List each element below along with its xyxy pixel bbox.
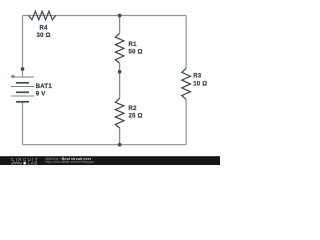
short plate 1 [16,82,29,84]
wire: middle branch bottom (R2 to bottom rail) [119,128,121,145]
resistor R2 (vertical, middle branch lower) [115,99,124,129]
resistor R3 (vertical, right rail) [182,68,191,99]
wire: top horizontal rail [23,15,187,17]
footer logo resistor squiggle [11,162,22,164]
short plate 3 [16,101,29,103]
long plate 2 [11,86,34,88]
resistor R1 (vertical, middle branch) [115,33,124,63]
svg-text:BAT1: BAT1 [36,84,53,90]
footer bar [0,156,220,165]
svg-text:9 V: 9 V [36,91,46,97]
resistor R4 (horizontal, top left) [29,11,56,20]
long plate 1 [11,76,34,78]
battery BAT1 [11,74,34,102]
wire: left rail lower (battery bottom to bottom rail) [22,102,24,145]
svg-text:R2: R2 [129,106,138,112]
svg-text:R4: R4 [40,26,49,32]
svg-text:30 Ω: 30 Ω [37,33,51,39]
wire: left rail upper (corner to battery top terminal) [22,16,24,78]
svg-text:10 Ω: 10 Ω [193,82,207,88]
svg-text:50 Ω: 50 Ω [129,50,143,56]
wire: right rail lower (R3 to bottom rail) [185,99,187,144]
long plate 3 [11,95,34,97]
wire: middle branch between R1 and R2 [119,63,121,98]
wire: right rail upper (top rail to R3) [185,16,187,69]
svg-text:25 Ω: 25 Ω [129,114,143,120]
svg-text:LAB: LAB [28,161,38,165]
svg-text:R1: R1 [129,42,138,48]
wire: middle branch top (top rail to R1) [119,16,121,34]
wire: bottom horizontal rail [23,144,187,146]
junction dot: R1/R2 node [118,70,122,74]
junction dot: top rail / middle branch [118,14,122,18]
svg-text:http://circuitlab.com/c/9bpqsu: http://circuitlab.com/c/9bpqsu [45,160,94,164]
footer logo square [24,162,26,165]
plus sign [11,74,15,78]
junction dot: bottom rail / middle branch [118,143,122,147]
short plate 2 [16,91,29,93]
junction dot: battery top terminal [21,67,25,71]
svg-text:R3: R3 [193,73,202,79]
